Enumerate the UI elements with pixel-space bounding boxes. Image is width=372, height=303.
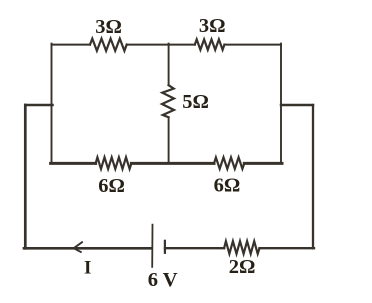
wire: bottom outer middle segment (battery to 2-ohm) <box>165 247 224 249</box>
wire: bottom-inner-right segment <box>244 162 282 165</box>
resistor R 2ohm <box>224 241 259 254</box>
svg-text:5Ω: 5Ω <box>182 91 209 113</box>
resistor R 6ohm left <box>96 157 132 169</box>
wire: top-middle segment between the two 3-ohm resistors <box>127 44 195 46</box>
wire: bottom outer right segment <box>260 247 315 249</box>
svg-text:3Ω: 3Ω <box>95 16 122 38</box>
svg-text:I: I <box>84 257 91 278</box>
svg-text:2Ω: 2Ω <box>229 256 256 278</box>
current direction arrowhead on bottom wire <box>74 242 82 252</box>
wire: inner-right vertical <box>280 44 282 164</box>
wire: inner-left vertical <box>51 44 53 164</box>
wire: right stub joining inner-right node to outer loop <box>281 104 313 107</box>
wire: top-left segment of top rail <box>52 44 91 46</box>
wire: bottom-inner-left segment <box>51 162 96 165</box>
resistor R 6ohm right <box>214 157 244 168</box>
wire: bottom outer left segment (to battery) <box>24 247 152 250</box>
svg-text:6Ω: 6Ω <box>214 175 241 197</box>
svg-text:6 V: 6 V <box>148 269 178 291</box>
wire: top-right segment of top rail <box>224 44 281 46</box>
resistor R 5ohm vertical <box>162 85 174 117</box>
resistor R 3ohm left <box>90 39 127 51</box>
wire: outer-left vertical <box>24 105 27 248</box>
wire: outer-right vertical <box>312 105 314 248</box>
wire: bottom-inner-middle segment <box>131 162 214 165</box>
svg-text:3Ω: 3Ω <box>199 15 226 37</box>
wire: middle vertical lower (from 5-ohm) <box>168 117 170 163</box>
resistor R 3ohm right <box>195 39 225 49</box>
svg-text:6Ω: 6Ω <box>98 175 125 197</box>
wire: middle vertical upper (to 5-ohm) <box>168 44 170 86</box>
battery long plate (+) <box>151 225 153 267</box>
wire: left stub joining outer loop to inner-left node <box>25 104 52 107</box>
battery short plate (-) <box>164 241 166 253</box>
